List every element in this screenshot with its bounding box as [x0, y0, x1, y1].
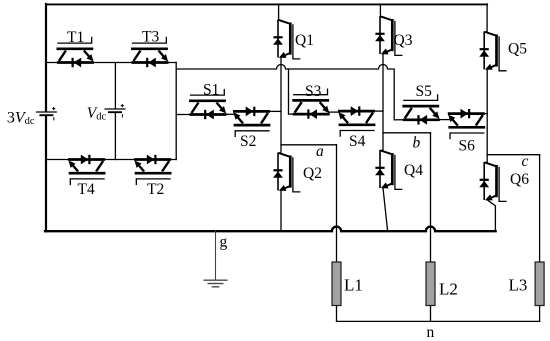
- wire top rail: [46, 3, 487, 5]
- svg-text:3Vdc: 3Vdc: [7, 109, 35, 127]
- svg-text:Q2: Q2: [303, 165, 322, 182]
- svg-text:Q6: Q6: [510, 171, 529, 188]
- wire S1 to S2: [227, 113, 235, 115]
- wire node a horizontal: [281, 144, 337, 146]
- transistor Q1: [273, 20, 300, 59]
- svg-text:c: c: [522, 153, 529, 170]
- wire S5 to S6: [440, 119, 449, 121]
- svg-text:L2: L2: [439, 280, 458, 299]
- battery Vdc: [105, 104, 126, 117]
- wire phase a to L1: [336, 145, 338, 262]
- wire Q1 top stub: [278, 4, 280, 20]
- wire neutral n: [337, 320, 540, 322]
- wire S3 to S4: [329, 111, 340, 113]
- wire Q3 top stub: [379, 4, 381, 16]
- wire Q2 bottom stub: [280, 190, 282, 231]
- wire Q6 bottom to rail: [487, 200, 495, 231]
- wire S2 to phase a: [270, 110, 281, 112]
- wire right vertical rail: [175, 63, 177, 160]
- transistor T1: [57, 37, 94, 68]
- wire feed branch to S3: [288, 69, 290, 114]
- transistor Q2: [273, 153, 300, 192]
- wire phase b vertical: [382, 54, 384, 150]
- svg-text:Vdc: Vdc: [87, 105, 107, 123]
- transistor T3: [131, 37, 168, 68]
- svg-text:T4: T4: [78, 181, 95, 198]
- wire T row: [46, 62, 176, 64]
- svg-text:b: b: [413, 135, 421, 152]
- svg-text:Q4: Q4: [404, 162, 423, 179]
- transistor T2: [134, 155, 171, 186]
- svg-text:a: a: [316, 143, 324, 160]
- svg-text:L3: L3: [509, 276, 528, 295]
- svg-text:T3: T3: [142, 29, 159, 46]
- svg-text:Q3: Q3: [394, 32, 413, 49]
- svg-text:T1: T1: [67, 29, 84, 46]
- wire node c horizontal: [487, 154, 539, 156]
- svg-text:Q1: Q1: [295, 32, 314, 49]
- wire L2 bottom: [430, 306, 432, 322]
- svg-text:L1: L1: [344, 276, 363, 295]
- transistor T4: [68, 155, 105, 186]
- wire phase a vertical: [280, 57, 282, 152]
- svg-text:S6: S6: [459, 138, 476, 155]
- svg-text:S5: S5: [416, 83, 433, 100]
- svg-text:T2: T2: [147, 181, 164, 198]
- ground: [204, 280, 228, 287]
- wire S4 to phase b: [375, 110, 383, 112]
- svg-text:S4: S4: [349, 133, 366, 150]
- wire L3 bottom: [539, 306, 541, 322]
- wire L1 bottom: [336, 306, 338, 322]
- transistor S1: [189, 89, 226, 120]
- battery 3Vdc: [36, 107, 57, 120]
- wire node b horizontal: [383, 132, 431, 134]
- wire ground stub: [215, 231, 217, 279]
- wire Q5 top stub: [486, 4, 488, 32]
- svg-text:S3: S3: [305, 83, 322, 100]
- svg-text:g: g: [220, 234, 228, 251]
- wire S1 left: [176, 114, 189, 116]
- wire mid vertical Vdc: [114, 63, 116, 160]
- inductor L1: [332, 262, 341, 306]
- svg-text:Q5: Q5: [508, 41, 527, 58]
- wire S5 left: [394, 119, 403, 121]
- transistor S3: [292, 89, 329, 120]
- transistor Q4: [375, 150, 402, 189]
- transistor S6: [448, 109, 485, 140]
- wire S6 to phase c: [485, 113, 487, 115]
- inductor L3: [535, 262, 544, 306]
- wire phase c vertical: [486, 69, 488, 162]
- wire T4 row: [46, 159, 176, 161]
- svg-text:S1: S1: [203, 82, 219, 99]
- wire left rail: [45, 4, 47, 231]
- transistor Q6: [479, 162, 506, 201]
- svg-text:n: n: [427, 324, 435, 341]
- transistor Q3: [375, 16, 402, 55]
- transistor S4: [338, 106, 375, 137]
- wire phase c to L3: [539, 155, 541, 262]
- transistor Q5: [479, 31, 506, 70]
- svg-text:S2: S2: [240, 133, 256, 150]
- wire S3 left: [289, 113, 293, 115]
- wire feed line with hops over phase a and b: [176, 65, 394, 120]
- wire bottom rail with hops: [45, 227, 496, 232]
- wire phase b to L2: [430, 133, 432, 262]
- transistor S2: [233, 107, 270, 138]
- inductor L2: [426, 262, 435, 306]
- transistor S5: [402, 94, 439, 125]
- wire Q4 bottom stub: [383, 188, 388, 231]
